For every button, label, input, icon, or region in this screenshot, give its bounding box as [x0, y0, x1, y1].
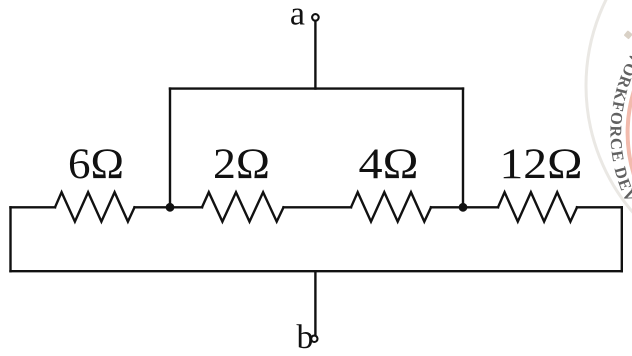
wire right lead: [577, 206, 622, 208]
svg-text:4Ω: 4Ω: [359, 141, 419, 188]
wire top bar: [170, 87, 463, 89]
wire left outer vertical: [9, 207, 11, 271]
resistor R1 6ohm: [55, 192, 135, 221]
resistor R4 12ohm: [498, 192, 577, 221]
terminal a: [312, 14, 319, 21]
wire R1 to node A: [135, 206, 203, 208]
svg-text:a: a: [290, 0, 305, 33]
terminal b: [311, 336, 317, 342]
svg-text:b: b: [297, 319, 314, 356]
resistor R3 4ohm: [351, 192, 431, 221]
wire bottom to terminal b: [314, 271, 316, 335]
svg-text:2Ω: 2Ω: [213, 141, 270, 188]
svg-text:6Ω: 6Ω: [68, 141, 124, 188]
node A junction dot: [166, 203, 175, 212]
wire R3 to node B: [431, 206, 498, 208]
wire bottom: [11, 270, 622, 272]
watermark ornament dot: [624, 30, 632, 39]
node B junction dot: [459, 203, 468, 212]
wire R2 to R3: [284, 206, 352, 208]
wire right branch vertical: [462, 89, 464, 208]
svg-text:12Ω: 12Ω: [500, 141, 583, 188]
wire a to top bar: [314, 21, 316, 88]
watermark red inner circle: [628, 0, 632, 276]
wire right outer vertical: [621, 207, 623, 271]
watermark outer ring: [586, 0, 632, 280]
wire left branch vertical: [169, 89, 171, 208]
wire left lead: [11, 206, 56, 208]
resistor R2 2ohm: [202, 192, 284, 221]
